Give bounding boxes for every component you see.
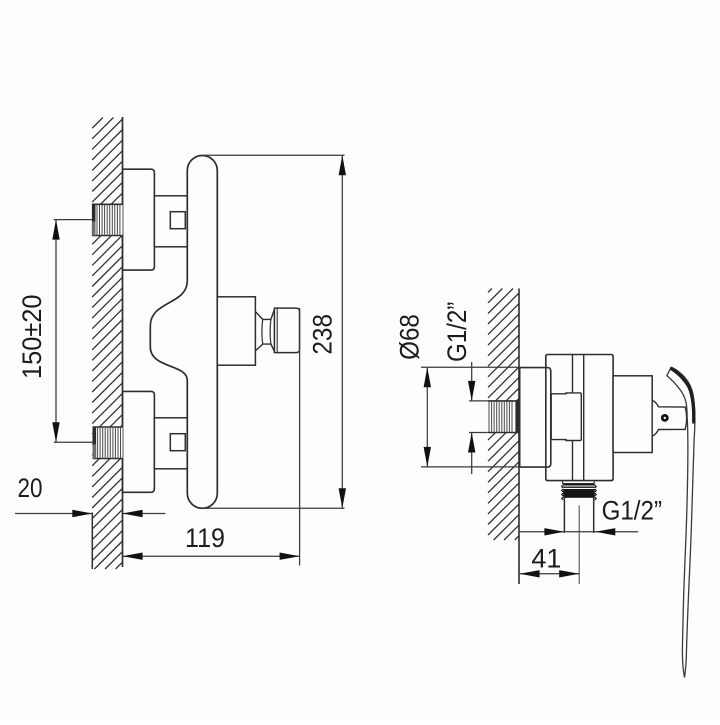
- wall surface line (right view): [518, 289, 520, 585]
- svg-text:G1/2”: G1/2”: [602, 495, 662, 525]
- outlet thread (black): [562, 484, 597, 500]
- dimension 150±20 extension lines: [54, 220, 93, 443]
- svg-text:G1/2”: G1/2”: [442, 302, 472, 362]
- dimension 20 line: [15, 513, 165, 515]
- body internal lines: [573, 355, 584, 481]
- knob extension line (for 119): [299, 308, 301, 566]
- connection nipple block: [551, 393, 581, 441]
- wall back edge segment (left view, near 20 dim): [91, 513, 93, 570]
- threaded connection (right view, in wall): [488, 401, 519, 433]
- svg-text:119: 119: [185, 523, 225, 553]
- outlet pipe: [564, 498, 593, 533]
- connector bottom inner square: [170, 434, 185, 451]
- valve stem housing: [613, 376, 652, 453]
- outlet centerline: [578, 506, 580, 585]
- body block (right view): [546, 355, 613, 481]
- connector top inner square: [170, 212, 185, 229]
- outlet collar: [563, 481, 595, 484]
- dimension 119 line: [123, 555, 300, 557]
- connector top: [154, 196, 187, 247]
- handle screw: [661, 414, 669, 422]
- flange bottom (wall escutcheon): [123, 391, 155, 492]
- mixer body side profile (tall bar with middle bulge): [150, 156, 217, 509]
- wall surface line (left view right edge): [122, 117, 124, 567]
- handle lever blade: [667, 367, 695, 677]
- dimension 238 extension lines: [203, 155, 344, 508]
- dimension G1/2 (thread) extension+line: [469, 401, 488, 433]
- dimension 41 line: [520, 573, 580, 575]
- svg-text:238: 238: [307, 314, 337, 355]
- dimension G1/2 (outlet) line: [520, 531, 639, 533]
- dimension 150±20 line: [55, 220, 57, 443]
- svg-text:150±20: 150±20: [17, 295, 47, 380]
- knob cap: [274, 308, 299, 353]
- svg-text:41: 41: [531, 544, 561, 574]
- connector bottom: [154, 418, 187, 469]
- threaded inlet bottom (in wall): [93, 427, 123, 459]
- handle hub and taper: [652, 400, 687, 436]
- handle thick top edge: [671, 368, 694, 423]
- dimension 238 line: [341, 155, 343, 508]
- escutcheon flange (right view): [520, 368, 551, 468]
- svg-text:Ø68: Ø68: [394, 314, 424, 360]
- wall hatching (left view): [92, 118, 122, 570]
- dimension ∅68 line: [426, 367, 428, 467]
- wall hatching (right view): [488, 289, 519, 541]
- threaded inlet top (in wall): [92, 204, 123, 235]
- knob neck (spool): [255, 309, 274, 351]
- svg-text:20: 20: [18, 473, 43, 503]
- flange top (wall escutcheon): [123, 169, 155, 270]
- dimension ∅68 extension lines: [421, 367, 520, 467]
- knob base plate: [217, 297, 255, 365]
